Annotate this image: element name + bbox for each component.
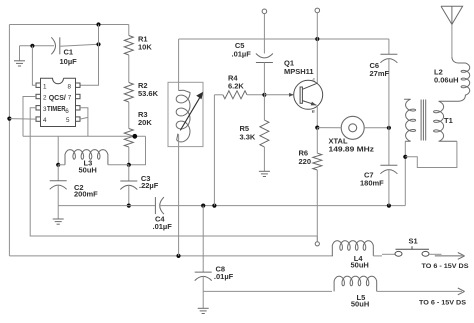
label L4 [354,254,364,263]
label R2 value [138,89,159,98]
svg-text:S1: S1 [409,237,418,246]
ground G1 [14,46,25,66]
wire switch out [429,253,442,255]
capacitor C1 [51,37,60,54]
wire C3 top [128,165,130,181]
label C6 [370,61,380,70]
wire L3 left lead [58,164,65,166]
svg-text:27mF: 27mF [370,69,390,78]
capacitor C3 [120,181,137,190]
label C7 value [360,178,384,187]
terminal T3 [315,8,320,13]
wire T1 secondary bottom loop [405,141,457,167]
wire C8 to L5 [203,290,332,292]
resistor R5 [260,120,269,147]
antenna [441,6,463,24]
wire pin1 to node A [32,46,36,85]
arrow to supply 1 [435,253,465,260]
svg-text:6.2K: 6.2K [228,82,244,91]
label C3 [141,174,151,183]
svg-text:1: 1 [43,83,47,90]
svg-text:c: c [313,77,316,83]
ground G4 [198,308,209,313]
node emitter [315,126,319,130]
svg-text:e: e [312,109,315,115]
label T1 [444,116,453,125]
wire trigger net [23,135,146,137]
arrow L1 adjust [180,92,203,131]
inductor L5 [334,276,377,291]
op-amp U1 timer IC body [36,78,80,126]
label XTAL freq [329,145,375,154]
label TO supply 1 [422,263,470,270]
label U1 pin3 [43,106,47,113]
wire top rail left [9,24,128,26]
svg-text:TIMER: TIMER [47,106,66,113]
wire C5 top [263,14,265,54]
wire L5 out [377,290,462,292]
node C1 right junction [96,42,100,46]
wire bus left [58,205,155,207]
node C8 bus [201,204,205,208]
svg-text:.01µF: .01µF [214,272,234,281]
node T1 bottom [403,155,407,159]
label C5 value [232,50,252,59]
wire collector top [316,13,318,84]
node R3/C3 [127,163,131,167]
wire rail to C6 [388,39,390,54]
svg-text:53.6K: 53.6K [138,89,159,98]
svg-text:5: 5 [66,117,70,124]
wire R3 bottom [128,147,130,165]
label L5 value [351,300,369,309]
wire L3 right lead [108,164,129,166]
svg-text:149.89 MHz: 149.89 MHz [329,145,375,154]
inductor L2 [452,57,470,101]
node A C1/gnd/pin1 [30,44,34,48]
capacitor C8 [195,272,212,281]
wire cap node drop [57,136,59,165]
wire C6 to node [388,59,390,128]
wire node to C7 [388,128,390,166]
capacitor C4 [155,197,164,214]
switch S1 [395,246,429,256]
node bottom bus / L1 junction [176,254,180,258]
resistor R1 [124,36,133,56]
label C4 [155,214,165,223]
wire tap right loop [129,136,146,165]
label C6 value [370,69,390,78]
label U1 pin8 [68,83,72,90]
wire ground to C1 [20,45,55,47]
svg-text:0.06uH: 0.06uH [434,76,459,85]
svg-text:.01µF: .01µF [232,50,252,59]
label R3 [138,110,148,119]
transformer T1 secondary [434,101,457,141]
label Q1 c [313,77,316,83]
svg-text:50uH: 50uH [79,166,97,175]
label C3 value [139,181,159,190]
wire R2-R3 [128,102,130,129]
resistor R3 [124,129,133,148]
svg-text:200mF: 200mF [74,190,98,199]
arrow to supply 2 [458,288,465,295]
svg-text:3.3K: 3.3K [240,133,256,142]
label R2 [138,81,148,90]
wire L4 to switch [373,254,395,256]
label U1 pin2 [43,95,47,102]
svg-text:180mF: 180mF [360,178,384,187]
label U1 TIMER [47,106,66,113]
transformer T1 core [421,100,426,141]
wire emitter lead [316,106,318,128]
terminal T4 [315,242,319,246]
node collector rail [315,37,319,41]
svg-text:7: 7 [68,95,72,102]
wire xtal left [317,127,341,129]
node C7 bus [387,204,391,208]
svg-text:20K: 20K [138,118,152,127]
ground G2 [53,219,64,224]
wire pin4 to frame [9,118,36,121]
ground G3 [259,171,270,176]
resistor R2 [124,83,133,103]
wire R4 vertical [213,95,215,206]
wire R1-R2 [128,55,130,83]
wire L1 top lead [178,39,180,91]
wire mid rail [179,38,389,40]
node R4/C5/base [262,93,266,97]
wire R5 top [263,95,265,120]
svg-text:10K: 10K [138,43,152,52]
wire bus right [160,205,406,207]
label R1 [138,35,148,44]
wire C7 bottom [388,170,390,206]
svg-text:.22µF: .22µF [139,181,159,190]
wire L1 bottom lead [178,135,180,256]
label C8 [216,265,226,274]
capacitor C7 [380,165,397,174]
wire branch to pin8 [80,25,99,86]
resistor R4 [223,91,247,99]
label R4 value [228,82,244,91]
node C3/bus [127,204,131,208]
svg-text:6: 6 [65,108,69,115]
label Q1 part [284,67,314,76]
label R6 [299,148,309,157]
label XTAL [329,137,348,146]
wire C8 top [202,206,204,273]
wire R5 bottom [263,147,265,171]
wire emitter to R6 [316,128,318,154]
label L5 [357,293,366,302]
label U1 pin1 [43,83,47,90]
label C5 [235,41,245,50]
label C4 value [153,222,173,231]
wire rail to R1 [128,25,130,36]
capacitor C5 [256,54,273,63]
label U1 pin4 [43,117,47,124]
label L2 [434,68,443,77]
terminal T2 [262,9,267,14]
wire antenna lead [451,24,453,57]
resistor R6 [313,153,322,170]
svg-text:TO 6 - 15V DS: TO 6 - 15V DS [419,299,467,306]
wire R4 right lead [247,94,264,96]
label U1 pin5 [66,117,70,124]
label C2 [74,183,84,192]
wire C8 bottom [202,276,204,308]
wire pin5 [80,117,88,119]
inductor L1 box [168,82,203,146]
label C7 [364,170,374,179]
node R4 bus [212,204,216,208]
label U1 pin6 [65,108,69,115]
svg-text:TO 6 - 15V DS: TO 6 - 15V DS [422,263,470,270]
node top rail / C1 branch junction [96,22,100,26]
label R6 value [299,157,312,166]
label L3 [84,159,93,168]
wire C3 bottom [128,185,130,205]
svg-text:T1: T1 [444,116,453,125]
svg-text:10µF: 10µF [60,57,78,66]
label C2 value [74,190,98,199]
label S1 [409,237,418,246]
wire pin2 [23,97,36,137]
wire bottom frame bus [9,255,333,257]
label L4 value [351,261,369,270]
svg-text:2: 2 [43,95,47,102]
wire left frame [8,25,10,256]
wire R4 left lead [214,94,223,96]
svg-text:QCS/: QCS/ [49,95,66,102]
svg-text:4: 4 [43,117,47,124]
label C1 value [60,57,78,66]
wire C1 to branch [60,44,99,46]
node left frame / pin4 junction [7,117,11,121]
label C1 [64,48,74,57]
node R3 wiper tap [132,134,137,139]
arrowhead base [289,93,294,97]
wire base lead [264,94,293,96]
label R5 [240,124,250,133]
svg-text:8: 8 [68,83,72,90]
node xtal/C6/C7 [387,126,391,130]
label R4 [228,74,238,83]
svg-text:220: 220 [299,157,312,166]
wire C5 bottom [263,63,265,95]
wire C2 top [57,165,59,181]
svg-text:50uH: 50uH [351,261,369,270]
capacitor C6 [380,54,397,63]
label L3 value [79,166,97,175]
svg-text:.01µF: .01µF [153,222,173,231]
label L2 value [434,76,459,85]
wire bus corner up [404,141,406,205]
svg-text:50uH: 50uH [351,300,369,309]
wire pin3 long [30,108,317,236]
label R3 value [138,118,152,127]
wire pin3 tap circle [316,236,318,242]
capacitor C2 [50,181,67,190]
inductor L4 [332,241,373,256]
wire C2 bottom [57,185,59,219]
inductor L1 coil [176,90,190,142]
transformer T1 primary [404,99,416,141]
svg-text:MPSH11: MPSH11 [284,67,314,76]
label U1 pin7 [68,95,72,102]
wire R6 bottom [316,170,318,242]
label TO supply 2 [419,299,467,306]
label R1 value [138,43,152,52]
svg-text:C1: C1 [64,48,74,57]
label Q1 [284,58,294,67]
label R5 value [240,133,256,142]
wire pin6 [80,108,88,137]
label U1 QCS/ [49,95,66,102]
wire xtal right [364,127,389,129]
label Q1 e [312,109,315,115]
crystal XTAL [341,116,364,139]
label C8 value [214,272,234,281]
inductor L3 [65,150,108,165]
transistor Q1 [294,80,323,109]
node L3 left / C2 [56,163,60,167]
